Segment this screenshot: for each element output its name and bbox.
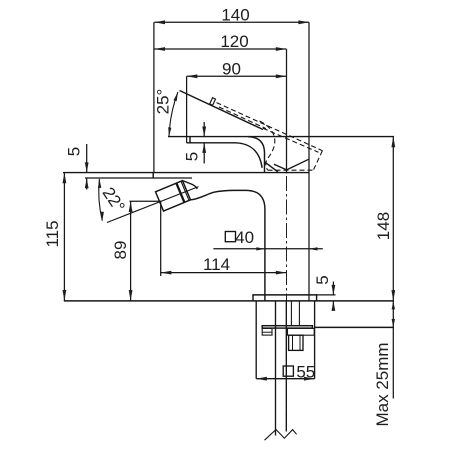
extension line x=186.6 (186, 76, 188, 143)
dimension 114 arrows (161, 271, 287, 275)
dimension 140 arrows (154, 20, 309, 24)
svg-text:90: 90 (222, 59, 241, 78)
base plate (253, 295, 317, 301)
dimension 40 line (213, 248, 322, 250)
dimension 148 arrows (391, 137, 395, 301)
hose right edge (285, 301, 287, 432)
square symbol 55 (283, 366, 293, 376)
svg-text:114: 114 (203, 255, 230, 274)
nozzle stem top (183, 181, 197, 189)
svg-text:140: 140 (221, 6, 249, 25)
dimension 5 left text (65, 147, 84, 156)
dimension 5 spout text (183, 152, 202, 161)
lever closed front edge (248, 137, 278, 173)
washer plate (262, 326, 312, 328)
svg-text:Max 25mm: Max 25mm (373, 342, 392, 426)
dimension 5 left lines (86, 144, 88, 190)
nut facets (293, 335, 301, 350)
dimension 115 text (43, 220, 62, 247)
nozzle body (156, 181, 191, 211)
left block midline (262, 331, 272, 333)
25 degree arc (169, 92, 178, 137)
svg-text:5: 5 (183, 152, 202, 161)
dimension 89 text (111, 241, 130, 260)
extension line right x=309 / body back edge (308, 22, 310, 301)
lever tab (210, 98, 216, 106)
spout plate left face (152, 173, 154, 178)
hose break zigzag (265, 430, 297, 441)
svg-text:55: 55 (296, 362, 315, 381)
dimension 40 arrows (256, 247, 317, 250)
dimension 55 arrows (256, 377, 314, 381)
svg-text:120: 120 (220, 32, 248, 51)
lever closed top line / angle reference y=136.6 (168, 136, 394, 138)
dimension 90 arrows (187, 74, 287, 78)
extension line left x=154 (153, 22, 155, 172)
lever raised dashed bottom edge (263, 128, 319, 152)
dimension 5 base lines (332, 282, 334, 311)
svg-text:5: 5 (313, 275, 332, 284)
svg-text:115: 115 (43, 220, 62, 247)
spout plate bottom y=178 (85, 177, 192, 179)
lever raised dashed inner line (219, 107, 266, 129)
lever raised dashed bottom (268, 169, 314, 171)
dimension 5 left arrows (85, 162, 89, 188)
22 degree arc arrows (98, 179, 104, 221)
square symbol 40 (225, 232, 235, 242)
right bar (288, 328, 315, 335)
dimension 140 line (154, 21, 309, 23)
under-counter housing right (314, 301, 316, 379)
max 25mm arrows (392, 301, 395, 327)
dimension 90 line (187, 75, 287, 77)
extension x=160.7 (160, 201, 162, 276)
lever raised dashed tip edge (314, 151, 323, 170)
base plate top extension (317, 294, 336, 296)
dimension 148 text (374, 212, 393, 240)
svg-text:89: 89 (111, 241, 130, 260)
under-counter housing left (255, 301, 257, 379)
svg-text:22°: 22° (99, 184, 129, 216)
22 degree axis line (107, 187, 199, 223)
nut (289, 335, 303, 350)
max 25mm text (373, 342, 392, 426)
22 degree text (99, 184, 129, 216)
svg-text:25°: 25° (154, 89, 173, 115)
left block (262, 328, 272, 335)
dimension 114 line (161, 272, 287, 274)
nozzle outlet extension (130, 200, 162, 202)
spout plate top y=172.6 (63, 172, 309, 174)
counter bottom line (315, 326, 394, 328)
body hump curve (191, 190, 265, 301)
svg-text:5: 5 (65, 147, 84, 156)
extension line center x=286.5 (286, 49, 288, 174)
dimension 5 base arrows (332, 285, 336, 311)
svg-text:40: 40 (235, 228, 254, 247)
dimension 5 base text (313, 275, 332, 284)
nozzle thick band (176, 183, 184, 202)
svg-text:148: 148 (374, 212, 393, 240)
lever end face (189, 137, 191, 143)
dimension 148 line (392, 137, 394, 399)
25 degree text (154, 89, 173, 115)
dimension 5 spout lines (203, 122, 205, 164)
22 degree arc (99, 179, 103, 221)
centerline dash-dot (286, 176, 288, 428)
dimension 89 arrows (129, 201, 133, 300)
nozzle end face inner line (181, 181, 189, 200)
lever pivot segments (274, 159, 309, 170)
dimension 89 line (130, 201, 132, 300)
dimension 120 arrows (154, 47, 286, 51)
dimension 115 arrows (63, 173, 67, 301)
dimension 120 line (154, 48, 286, 50)
dimension 5 spout arrows (202, 127, 206, 153)
lever raised dashed top edge (217, 103, 323, 151)
shank studs (291, 301, 299, 326)
dimension 115 line (63, 173, 65, 301)
lever closed second line (187, 143, 263, 168)
dimension 55 line (256, 378, 314, 380)
lever raised dashed front curve (260, 121, 275, 170)
25 degree reference line (180, 91, 264, 130)
25 degree arc arrows (168, 92, 178, 136)
hose left edge (275, 301, 277, 436)
counter top line (64, 300, 394, 302)
